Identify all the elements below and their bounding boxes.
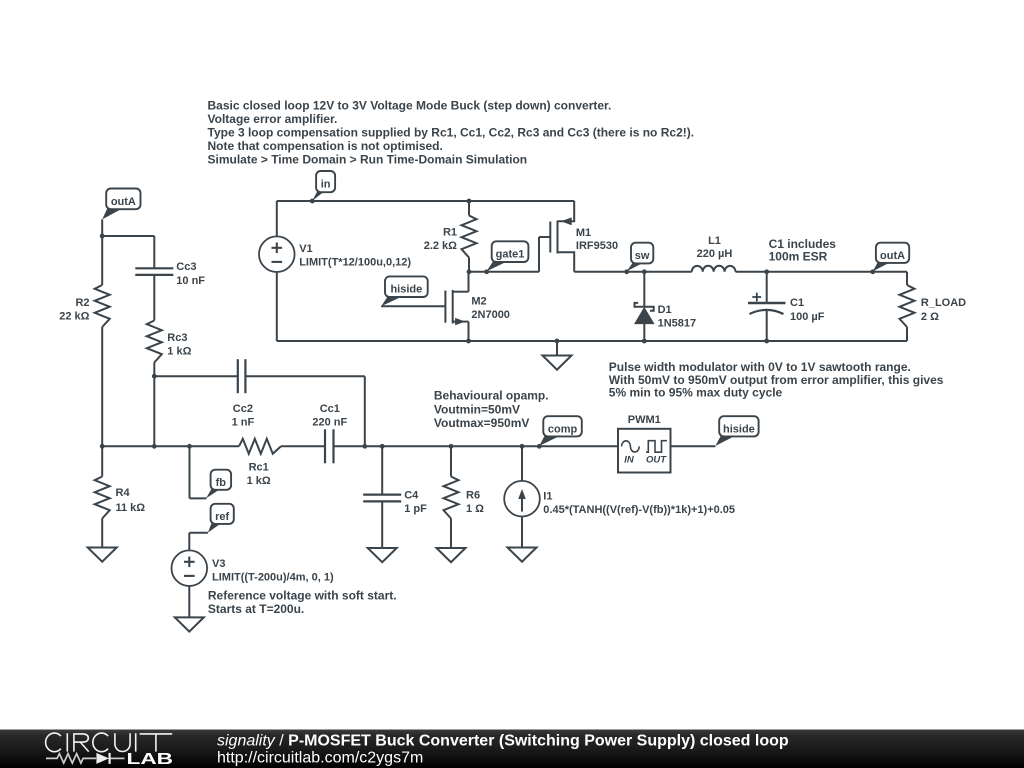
svg-text:10 nF: 10 nF: [176, 275, 205, 287]
wire Cc3 top lead: [153, 236, 155, 268]
svg-text:R1: R1: [443, 226, 457, 238]
svg-text:Cc3: Cc3: [176, 261, 196, 273]
svg-text:Rc1: Rc1: [249, 461, 269, 473]
wire top rail (in net): [277, 200, 574, 202]
CircuitLab logo lettering: [46, 733, 173, 752]
svg-text:C1: C1: [790, 297, 804, 309]
svg-text:OUT: OUT: [646, 454, 667, 465]
wire gate1 net: [469, 271, 539, 273]
svg-text:Reference voltage with soft st: Reference voltage with soft start.: [208, 589, 397, 603]
svg-text:C4: C4: [404, 490, 419, 502]
wire outA branch top left: [101, 219, 103, 236]
svg-text:Basic closed loop 12V to 3V Vo: Basic closed loop 12V to 3V Voltage Mode…: [208, 98, 612, 112]
svg-text:Rc3: Rc3: [167, 332, 187, 344]
svg-text:Voltage error amplifier.: Voltage error amplifier.: [208, 112, 338, 126]
node flag ref: [208, 523, 222, 533]
wire sw rail: [574, 271, 692, 273]
resistor Rc1: [239, 439, 281, 454]
voltage source V3: [172, 550, 208, 586]
resistor R2: [95, 285, 110, 327]
pwm block PWM1: [618, 429, 671, 473]
svg-text:D1: D1: [658, 304, 672, 316]
svg-text:R2: R2: [75, 297, 89, 309]
wire ground stub mid: [556, 341, 558, 356]
svg-text:220 nF: 220 nF: [312, 416, 347, 428]
svg-text:LIMIT((T-200u)/4m, 0, 1): LIMIT((T-200u)/4m, 0, 1): [212, 571, 334, 583]
svg-text:1 kΩ: 1 kΩ: [247, 475, 271, 487]
svg-text:L1: L1: [708, 235, 721, 247]
wire PWM1 output: [671, 445, 716, 447]
node flag comp: [539, 435, 561, 446]
svg-text:V3: V3: [212, 558, 225, 570]
svg-text:M1: M1: [576, 227, 591, 239]
node flag fb: [206, 489, 221, 499]
svg-text:1 Ω: 1 Ω: [466, 503, 484, 515]
wire R2 leads: [101, 236, 103, 285]
svg-text:Voutmin=50mV: Voutmin=50mV: [434, 402, 520, 416]
pmos transistor M1: [550, 201, 574, 272]
wire M2 source lead: [468, 322, 470, 341]
resistor R4: [95, 477, 110, 519]
svg-text:http://circuitlab.com/c2ygs7m: http://circuitlab.com/c2ygs7m: [217, 749, 423, 766]
wire V1 bottom lead: [276, 272, 278, 341]
capacitor C4: [363, 494, 401, 496]
svg-text:outA: outA: [880, 250, 905, 262]
svg-text:Cc1: Cc1: [320, 403, 340, 415]
svg-text:LIMIT(T*12/100u,0,12): LIMIT(T*12/100u,0,12): [299, 257, 411, 269]
inductor L1: [692, 266, 736, 272]
wire fb branch: [189, 446, 191, 498]
logo resistor-diode squiggle: [46, 754, 96, 763]
svg-text:ref: ref: [215, 511, 229, 523]
wire M2 gate lead (hiside): [381, 305, 445, 307]
ground (V3): [175, 617, 204, 631]
wire V3 bottom lead: [188, 586, 190, 617]
wire R6 leads: [450, 446, 452, 476]
node flag outA-left: [102, 208, 123, 219]
svg-text:2N7000: 2N7000: [471, 309, 510, 321]
svg-text:fb: fb: [216, 477, 227, 489]
ground (I1): [508, 548, 537, 562]
wire ref branch: [189, 532, 208, 534]
wire V1 top lead: [276, 201, 278, 236]
wire D1 leads: [643, 272, 645, 307]
svg-text:2.2 kΩ: 2.2 kΩ: [424, 240, 457, 252]
resistor R_LOAD: [900, 285, 915, 327]
capacitor Cc1: [324, 429, 326, 463]
wire M2 drain lead: [468, 272, 470, 292]
svg-text:220 µH: 220 µH: [697, 248, 733, 260]
svg-text:hiside: hiside: [723, 424, 755, 436]
wire C4 leads: [381, 446, 383, 494]
svg-text:5% min to 95% max duty cycle: 5% min to 95% max duty cycle: [609, 386, 783, 400]
svg-text:sw: sw: [635, 250, 650, 262]
wire ground rail: [277, 340, 907, 342]
wire Rc3 bottom lead: [153, 363, 155, 377]
junction dots: [310, 199, 315, 204]
resistor R6: [444, 477, 459, 519]
svg-text:in: in: [321, 178, 331, 190]
svg-text:1N5817: 1N5817: [658, 317, 697, 329]
node flag hiside-left: [381, 296, 403, 306]
capacitor Cc2: [237, 359, 239, 393]
svg-text:R6: R6: [466, 490, 480, 502]
svg-text:100 µF: 100 µF: [790, 311, 825, 323]
svg-text:IN: IN: [624, 454, 635, 465]
svg-text:IRF9530: IRF9530: [576, 240, 618, 252]
node flag outA-right: [873, 262, 891, 271]
wire comp rail (error amp output net): [102, 445, 239, 447]
node flag gate1: [487, 261, 509, 271]
wire R4 leads: [101, 446, 103, 476]
svg-text:Cc2: Cc2: [233, 403, 253, 415]
wire Cc3-Rc3 link: [153, 275, 155, 321]
svg-text:Note that compensation is not: Note that compensation is not optimised.: [208, 139, 443, 153]
svg-text:LAB: LAB: [127, 751, 174, 768]
ground (main rail): [543, 356, 572, 370]
svg-text:I1: I1: [543, 491, 552, 503]
resistor Rc3: [147, 321, 162, 363]
node flag hiside-right: [715, 435, 736, 446]
node flag sw: [627, 262, 644, 271]
svg-text:M2: M2: [471, 296, 486, 308]
svg-text:Pulse width modulator with 0V: Pulse width modulator with 0V to 1V sawt…: [609, 360, 911, 374]
title annotation text: [208, 98, 695, 166]
svg-text:Behavioural opamp.: Behavioural opamp.: [434, 389, 549, 403]
svg-text:0.45*(TANH((V(ref)-V(fb))*1k)+: 0.45*(TANH((V(ref)-V(fb))*1k)+1)+0.05: [543, 504, 735, 516]
svg-text:2 Ω: 2 Ω: [921, 311, 939, 323]
svg-text:hiside: hiside: [390, 284, 422, 296]
svg-text:Simulate > Time Domain > Run T: Simulate > Time Domain > Run Time-Domain…: [208, 152, 528, 166]
capacitor Cc3: [135, 267, 173, 269]
svg-text:Voutmax=950mV: Voutmax=950mV: [434, 416, 530, 430]
svg-text:R4: R4: [116, 487, 131, 499]
svg-text:Type 3 loop compensation suppl: Type 3 loop compensation supplied by Rc1…: [208, 125, 695, 139]
wire Cc2 branch: [154, 375, 238, 377]
wire R_LOAD leads: [906, 272, 908, 285]
wire Rc3 junction down: [153, 376, 155, 446]
nmos transistor M2: [445, 290, 468, 324]
svg-text:R_LOAD: R_LOAD: [921, 297, 966, 309]
wire R1 leads: [468, 201, 470, 216]
svg-text:1 nF: 1 nF: [232, 416, 255, 428]
wire C1 leads: [766, 272, 768, 303]
svg-text:V1: V1: [299, 243, 312, 255]
voltage source V1: [259, 236, 295, 272]
svg-text:100m ESR: 100m ESR: [769, 250, 828, 264]
svg-text:comp: comp: [548, 424, 578, 436]
resistor R1: [462, 216, 477, 258]
svg-text:outA: outA: [111, 196, 136, 208]
schottky diode D1: [635, 303, 654, 311]
capacitor C1: [748, 302, 786, 304]
svg-text:22 kΩ: 22 kΩ: [59, 311, 89, 323]
ground (R6): [437, 548, 466, 562]
svg-text:signality / P-MOSFET Buck Conv: signality / P-MOSFET Buck Converter (Swi…: [217, 733, 789, 750]
current source I1: [504, 481, 540, 517]
svg-text:1 pF: 1 pF: [404, 503, 427, 515]
ground (R4): [88, 548, 117, 562]
svg-text:gate1: gate1: [496, 249, 525, 261]
wire I1 leads: [521, 446, 523, 481]
svg-text:Starts at T=200u.: Starts at T=200u.: [208, 602, 304, 616]
svg-text:1 kΩ: 1 kΩ: [167, 345, 191, 357]
node flag in: [312, 191, 324, 201]
svg-text:PWM1: PWM1: [628, 414, 661, 426]
ground (C4): [368, 548, 397, 562]
svg-text:11 kΩ: 11 kΩ: [116, 502, 146, 514]
